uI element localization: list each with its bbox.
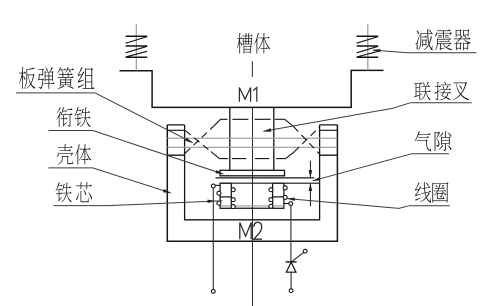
leader 气隙 <box>313 154 412 181</box>
leader 线圈 <box>288 199 409 209</box>
thyristor gate lead <box>291 252 304 262</box>
leader 减震器 <box>373 50 407 53</box>
label underline 板弹簧组 <box>16 92 95 94</box>
iron core bottom <box>231 207 272 209</box>
leaf spring dashed diag left B <box>185 131 211 152</box>
coil bobbin right <box>273 183 284 208</box>
leader tick under 槽体 <box>251 61 253 77</box>
coil lead wire right <box>290 206 292 262</box>
thyristor cathode wire <box>290 272 292 289</box>
label text 壳体 <box>57 144 73 164</box>
terminal circle bottom right <box>289 289 293 293</box>
leaf spring pack neutral lower (gray) <box>167 146 337 148</box>
trough body 槽体 outline <box>120 70 384 107</box>
shell 壳体 outline <box>167 125 337 241</box>
label text 联接叉 <box>414 82 431 101</box>
leaf spring dashed diag left A <box>185 126 214 154</box>
leaf spring pack neutral upper (gray) <box>167 137 337 139</box>
thyristor cathode bar <box>286 261 297 263</box>
label text 衔铁 <box>56 107 72 127</box>
coil lead wire left <box>212 188 214 290</box>
label text 槽体 <box>237 33 253 54</box>
leader 板弹簧组 <box>95 93 192 143</box>
leader 壳体 <box>93 168 171 193</box>
thyristor gate terminal <box>303 249 307 253</box>
damper spring left (减震器) <box>135 24 137 70</box>
leaf spring dashed bottom row <box>211 152 220 159</box>
air gap lower line (core top) <box>220 182 319 184</box>
label underline 线圈 <box>409 205 450 207</box>
coil terminal right <box>284 203 289 205</box>
label M1 <box>239 88 250 102</box>
coil terminal left <box>215 184 220 186</box>
leaf spring dashed diag right B <box>294 127 319 152</box>
coil turns left bobbin <box>217 191 221 195</box>
leader 联接叉 <box>264 108 394 131</box>
leaf spring dashed diag right A <box>294 127 320 155</box>
thyristor triangle <box>286 262 296 272</box>
label text 板弹簧组 <box>19 67 36 89</box>
label underline 衔铁 <box>48 130 92 132</box>
air gap dimension arrow lower <box>309 184 311 207</box>
label M2 <box>240 223 251 240</box>
terminal circle bottom left <box>211 290 215 294</box>
air gap dimension arrow upper <box>309 161 311 178</box>
right leaf-spring clamp block <box>320 124 338 126</box>
label underline 铁芯 <box>54 205 110 207</box>
label text 铁芯 <box>56 182 72 202</box>
label underline 减震器 <box>407 52 476 54</box>
label text 气隙 <box>414 131 431 151</box>
armature plate 衔铁 <box>220 170 285 176</box>
coil bobbin left <box>220 183 231 208</box>
damper spring right (减震器) <box>367 24 369 70</box>
coil turns right bobbin <box>269 188 273 192</box>
leader 衔铁 <box>93 131 223 175</box>
iron core bottom gray line <box>221 205 284 207</box>
label underline 联接叉 <box>410 102 472 104</box>
centre axis line <box>252 107 254 306</box>
connecting fork column left edge <box>229 107 231 170</box>
leader 铁芯 <box>109 201 223 206</box>
left leaf-spring clamp block <box>167 124 184 126</box>
label underline 壳体 <box>48 167 92 169</box>
label text 减震器 <box>416 29 433 50</box>
leaf spring dashed top row <box>214 119 220 125</box>
label underline 气隙 <box>412 153 449 155</box>
label text 线圈 <box>415 182 431 202</box>
inner magnet box <box>185 125 320 220</box>
air gap upper line <box>216 177 315 179</box>
connecting fork column right edge <box>273 107 275 170</box>
